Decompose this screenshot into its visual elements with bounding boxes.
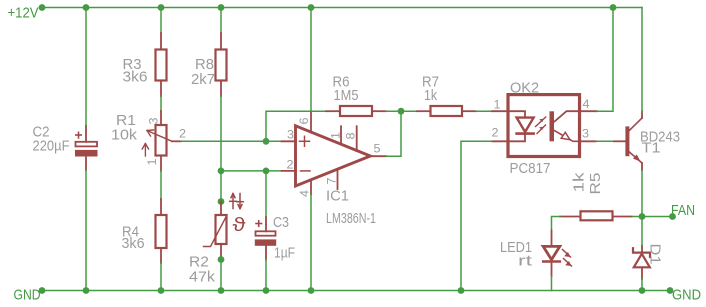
svg-text:3: 3 [147,117,161,124]
transistor T1 [614,112,642,171]
wire GND bottom rail [42,290,670,292]
svg-text:GND: GND [14,287,41,304]
junction pin3 node [263,138,270,145]
svg-text:47k: 47k [189,269,216,286]
wire R3 top lead [160,8,162,34]
junction top rail at R8 [218,4,225,11]
svg-text:3: 3 [287,128,294,142]
svg-text:220µF: 220µF [33,138,70,155]
wire output node to R7 [401,110,417,112]
wire OK2 pin3 to T1 base [596,140,614,142]
wire output node down to pin5 [387,111,402,156]
wire R2 bottom lead [220,258,222,291]
junction pin2 net at R8 [218,168,225,175]
wire R8 down to pin2 net [220,96,222,171]
svg-text:1µF: 1µF [274,245,295,262]
junction D1 at GND [639,287,646,294]
diode D1 [633,246,650,279]
wire R8 top lead [220,8,222,34]
pin IC1.4 stub [310,180,312,195]
wire R8 node down to R2 [220,171,222,202]
svg-text:1: 1 [145,158,159,165]
wire feedback riser [266,111,326,141]
svg-text:C3: C3 [273,214,289,231]
svg-text:1M5: 1M5 [334,87,359,104]
junction top rail at OK2 pin4 riser [610,4,617,11]
capacitor C2 [75,126,98,170]
pin IC1.8 stub [356,126,358,151]
wire C2 top lead [85,8,87,127]
pin OK2.4 stub [580,110,597,112]
wire R1 wiper stub [172,140,181,142]
wire D1 to GND [641,279,643,291]
svg-text:rt: rt [518,253,533,270]
svg-text:4: 4 [583,97,590,111]
wire +12V to T1 collector [641,8,643,112]
pin OK2.3 stub [580,140,596,142]
junction GND at R4 [158,287,165,294]
pin OK2.1 stub [492,110,508,112]
node +12V label dot [39,4,46,11]
junction top rail at R3 [158,4,165,11]
junction FAN node [639,213,646,220]
pin IC1.6 stub [310,111,312,132]
wire R7 to OK2 pin1 [476,110,492,112]
svg-text:R5: R5 [587,173,604,195]
wire C3 top lead [265,171,267,217]
svg-text:GND: GND [672,287,701,304]
svg-text:8: 8 [344,132,358,139]
wire OK2 pin4 riser [597,8,613,112]
svg-text:3k6: 3k6 [123,69,148,86]
pin IC1.5 stub [370,155,387,157]
junction below R2 [218,256,225,263]
pin IC1.7 stub [337,169,339,189]
svg-text:3: 3 [582,127,589,141]
wire IC1 pin4 to GND [310,195,312,291]
svg-text:3k6: 3k6 [122,235,145,252]
svg-text:FAN: FAN [671,202,695,219]
wire FAN node to label [642,216,673,218]
svg-text:6: 6 [297,117,311,124]
svg-text:1k: 1k [571,172,588,193]
resistor R5 [560,211,632,220]
node GND left dot [39,287,46,294]
svg-text:+12V: +12V [8,5,39,22]
wire LED1 to GND [551,276,553,291]
junction above R2 [218,198,225,205]
node GND right dot [667,287,674,294]
wire C2 bottom lead [85,170,87,291]
svg-text:LM386N-1: LM386N-1 [326,210,376,227]
svg-text:4: 4 [298,190,312,197]
thermistor R2 [204,202,228,258]
junction OK2 pin2 at GND [458,287,465,294]
resistor R3 [156,33,167,96]
wire IC1 pin6 riser to +12V [310,8,312,112]
wire R3 to R1 [160,96,162,111]
potentiometer R1 [142,111,172,171]
junction top rail at IC1 pin6 [308,4,315,11]
op-amp IC1 [296,126,371,186]
wire FAN node to R5 [632,216,643,218]
junction top rail at C2 [83,4,90,11]
node FAN label dot [669,213,676,220]
capacitor C3 [255,217,276,259]
svg-text:2: 2 [287,158,294,172]
junction GND at C3 [263,287,270,294]
resistor R4 [156,199,167,263]
pin IC1.1 stub [340,126,342,144]
wire +12V top rail [42,7,642,9]
wire C3 bottom lead [265,260,267,291]
symbol R2 arrows up/down [230,194,244,209]
svg-text:7: 7 [325,177,339,184]
svg-text:2: 2 [492,126,499,140]
wire OK2 pin2 to GND [461,141,492,290]
svg-text:2: 2 [179,127,186,141]
optocoupler OK2 [508,95,580,157]
junction GND at C2 [83,287,90,294]
junction GND at IC1 pin4 [308,287,315,294]
pin IC1.2 stub [282,170,297,172]
resistor R8 [216,33,227,96]
wire R1 to R4 [160,171,162,199]
svg-text:1k: 1k [424,87,437,104]
junction GND at R2 [218,287,225,294]
svg-text:2k7: 2k7 [191,71,215,88]
pin OK2.2 stub [492,140,508,142]
LED LED1 [543,231,571,277]
svg-text:D1: D1 [647,244,664,265]
wire wiper to IC1 pin3 [181,140,282,142]
svg-text:1: 1 [329,132,343,139]
svg-text:IC1: IC1 [326,188,349,205]
svg-text:OK2: OK2 [510,80,539,97]
wire FAN node to D1 [641,217,643,247]
svg-text:1: 1 [494,98,501,112]
svg-text:T1: T1 [642,140,661,157]
resistor R6 [326,106,386,116]
wire pin2 net horizontal [221,170,282,172]
resistor R7 [417,106,476,116]
wire R5 to LED1 [552,217,561,231]
wire T1 emitter to FAN node [641,170,643,217]
svg-text:PC817: PC817 [510,160,551,177]
svg-text:10k: 10k [111,127,138,144]
svg-text:ϑ: ϑ [233,215,247,236]
wire R4 bottom lead [160,263,162,291]
junction pin2 net at C3 [263,168,270,175]
wire R6 to output node [386,110,401,112]
pin IC1.3 stub [282,140,297,142]
svg-text:5: 5 [374,142,381,156]
junction output node [398,108,405,115]
